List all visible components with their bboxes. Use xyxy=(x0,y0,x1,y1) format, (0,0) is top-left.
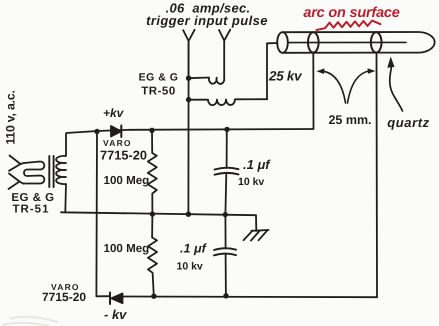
node: R1 bottom on ground rail xyxy=(150,211,155,216)
label -kv xyxy=(104,307,127,322)
svg-text:trigger input pulse: trigger input pulse xyxy=(146,13,268,28)
capacitor C2 .1uf 10kv (lower) xyxy=(214,215,236,296)
transformer T1 EG&G TR-51 primary coil xyxy=(23,162,44,184)
wire: -kv bottom rail xyxy=(96,296,377,297)
label EG & G TR-50 xyxy=(139,72,179,98)
label quartz xyxy=(387,115,430,130)
label .06 amp/sec. trigger input pulse xyxy=(146,1,268,28)
wire: AC input upper lead Y terminal xyxy=(9,156,24,171)
label 7715-20 xyxy=(100,147,147,162)
label 110 v, a.c. (rotated) xyxy=(4,90,18,144)
flash lamp electrode 2 xyxy=(371,32,382,52)
resistor R1 100 Meg (upper) xyxy=(148,130,157,214)
svg-text:arc on surface: arc on surface xyxy=(303,5,399,21)
label VARO xyxy=(103,138,132,148)
wire: trigger input left lead with Y terminal xyxy=(183,30,194,78)
label 25 mm. xyxy=(328,113,371,127)
resistor R2 100 Meg (lower) xyxy=(148,215,157,296)
node: AC / diode junction on top rail xyxy=(94,129,99,134)
label arc on surface (red) xyxy=(303,5,399,21)
transformer T2 EG&G TR-50 primary coil xyxy=(189,78,225,84)
svg-text:10 kv: 10 kv xyxy=(177,261,203,273)
label 100 Meg (lower) xyxy=(104,242,150,255)
capacitor C1 .1uf 10kv (upper) xyxy=(215,130,239,215)
flash lamp electrode 1 xyxy=(308,32,319,52)
label +kv xyxy=(103,106,125,120)
wire: electrode 2 down to -kv rail (right side) xyxy=(376,53,379,298)
label 25 kv xyxy=(268,69,303,84)
flash lamp quartz tube body xyxy=(283,32,435,53)
svg-text:EG & G: EG & G xyxy=(11,192,54,204)
label .1 uf 10 kv (lower) xyxy=(177,242,208,273)
label 100 Meg (upper) xyxy=(104,174,150,187)
arc marks on lamp surface (red zigzag) xyxy=(317,21,381,30)
svg-text:100 Meg: 100 Meg xyxy=(104,174,150,187)
label EG & G TR-51 xyxy=(11,192,54,216)
ground symbol xyxy=(244,230,269,241)
node: C2 bottom on -kv rail xyxy=(223,293,228,298)
node: R1 top xyxy=(149,128,154,133)
wire: +kv top rail xyxy=(67,129,314,133)
pointer arrow for quartz label xyxy=(390,68,403,112)
node: trigger transformer secondary junction xyxy=(186,97,191,102)
svg-text:+kv: +kv xyxy=(103,106,125,120)
svg-text:quartz: quartz xyxy=(387,115,430,130)
diode D1 VARO 7715-20 (+kv) xyxy=(111,126,121,138)
svg-text:100 Meg: 100 Meg xyxy=(104,242,150,255)
svg-text:TR-51: TR-51 xyxy=(13,204,50,216)
svg-text:.1 μf: .1 μf xyxy=(243,157,271,172)
label 7715-20 (lower) xyxy=(42,290,86,304)
flash lamp inner electrode rod xyxy=(288,41,406,43)
svg-text:7715-20: 7715-20 xyxy=(100,147,147,162)
wire: 25 kv lead from TR-50 secondary up to lamp left end xyxy=(267,43,278,99)
svg-text:.1 μf: .1 μf xyxy=(180,242,208,256)
svg-text:10 kv: 10 kv xyxy=(238,176,264,188)
transformer T1 secondary coil xyxy=(56,134,66,213)
svg-text:7715-20: 7715-20 xyxy=(42,290,86,304)
node: trigger transformer primary junction xyxy=(186,76,191,81)
node: C1 top xyxy=(224,127,229,132)
flash lamp left end cap xyxy=(277,32,288,53)
svg-text:EG & G: EG & G xyxy=(139,72,179,84)
wire: electrode 1 down to +kv rail xyxy=(312,53,314,129)
svg-text:TR-50: TR-50 xyxy=(141,86,175,98)
wire: AC input lower lead Y terminal xyxy=(9,174,24,190)
wire: TR-50 common vertical down to ground rail xyxy=(187,42,189,214)
label VARO (lower) xyxy=(51,282,80,292)
diode D2 VARO 7715-20 (-kv) xyxy=(110,293,123,305)
svg-text:110 v, a.c.: 110 v, a.c. xyxy=(4,90,18,144)
transformer T2 EG&G TR-50 secondary coil xyxy=(189,99,267,105)
svg-text:25 kv: 25 kv xyxy=(268,69,303,84)
svg-text:25 mm.: 25 mm. xyxy=(328,113,371,127)
wire: trigger input right lead with Y terminal xyxy=(219,30,230,78)
dimension arrows 25 mm. between electrodes xyxy=(323,71,369,103)
node: C1 bottom on ground rail xyxy=(223,212,228,217)
node: TR-50 common on ground rail xyxy=(186,212,191,217)
svg-text:- kv: - kv xyxy=(104,307,127,322)
scan smudge artifact bottom-left xyxy=(2,317,58,326)
wire: ground rail (middle) xyxy=(61,212,256,231)
label .1 uf 10 kv (upper) xyxy=(238,157,271,188)
wire: AC vertical from top rail down to -kv diode xyxy=(95,132,98,297)
transformer T1 core xyxy=(49,156,53,187)
node: R2 bottom on -kv rail xyxy=(151,294,156,299)
